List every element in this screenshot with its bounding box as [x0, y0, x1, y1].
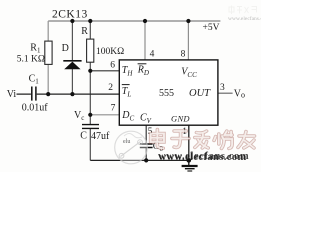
wire diode branch vertical	[71, 21, 73, 94]
svg-text:GND: GND	[171, 113, 190, 123]
svg-text:www.elecfans.com: www.elecfans.com	[158, 151, 249, 162]
junction R1 to input wire	[46, 92, 50, 96]
junction pin1 to ground rail	[187, 158, 192, 163]
svg-text:C1: C1	[29, 74, 40, 86]
label TL-bar pin2 inside	[122, 85, 132, 99]
ground	[182, 160, 198, 171]
svg-text:47uf: 47uf	[91, 131, 110, 142]
wire pin 1 stub	[188, 125, 190, 160]
svg-text:D: D	[62, 43, 69, 54]
svg-text:0.01uf: 0.01uf	[22, 103, 49, 114]
svg-text:Vo: Vo	[234, 88, 245, 99]
svg-text:+5V: +5V	[203, 23, 220, 33]
wire pin 3 output	[218, 92, 233, 94]
wire R1 branch vertical	[47, 21, 49, 94]
junction diode to input wire	[70, 92, 74, 96]
wire bottom ground rail	[90, 159, 189, 161]
wire pin 5 stub through C0	[145, 125, 147, 160]
diode D 2CK13	[62, 43, 82, 69]
junction C0 to ground rail	[144, 158, 148, 162]
svg-text:OUT: OUT	[189, 88, 211, 99]
watermark logo circle	[115, 131, 148, 164]
svg-text:4: 4	[150, 50, 155, 60]
watermark faint top right	[228, 6, 271, 23]
wire pin 6 horizontal	[90, 70, 119, 72]
junction R to +5V rail	[88, 19, 92, 23]
svg-text:2CK13: 2CK13	[52, 8, 88, 20]
svg-text:Vc: Vc	[74, 110, 84, 122]
capacitor C1 0.01uf	[22, 74, 49, 114]
svg-text:R1: R1	[30, 43, 41, 55]
junction diode to +5V rail	[70, 19, 74, 23]
svg-text:8: 8	[181, 50, 186, 60]
label RD-bar pin4 inside	[137, 64, 149, 77]
junction R to pin6 wire	[88, 69, 92, 73]
capacitor C0	[140, 141, 164, 153]
watermark chinese text 电子发烧友	[151, 130, 255, 149]
capacitor C 47uf	[80, 125, 110, 142]
svg-text:5.1 KΩ: 5.1 KΩ	[17, 55, 45, 65]
svg-text:R: R	[81, 26, 88, 37]
svg-text:www.elecfans.com: www.elecfans.com	[228, 15, 261, 22]
wire pin 4 stub	[144, 21, 146, 60]
svg-text:6: 6	[110, 61, 115, 71]
svg-text:3: 3	[220, 83, 225, 93]
svg-text:C: C	[80, 131, 87, 142]
wire top +5V rail	[48, 20, 220, 22]
svg-text:100KΩ: 100KΩ	[96, 47, 124, 57]
wire R 100K branch vertical down to Vc and C	[89, 21, 91, 160]
IC U1 555 timer box	[119, 60, 218, 125]
junction pin8 stub to +5V rail	[186, 19, 190, 23]
svg-text:elu: elu	[123, 139, 130, 145]
wire pin 7 horizontal	[90, 114, 119, 116]
svg-text:Vi: Vi	[7, 89, 17, 100]
node Vc junction	[88, 113, 92, 117]
resistor R 100K	[81, 26, 124, 62]
junction pin4 stub to +5V rail	[143, 19, 147, 23]
wire pin 8 stub	[187, 21, 189, 60]
wire Vi input horizontal to pin 2	[17, 93, 120, 95]
svg-text:2: 2	[108, 83, 113, 93]
resistor R1	[17, 41, 52, 65]
svg-text:7: 7	[111, 104, 116, 114]
svg-text:555: 555	[159, 88, 174, 99]
